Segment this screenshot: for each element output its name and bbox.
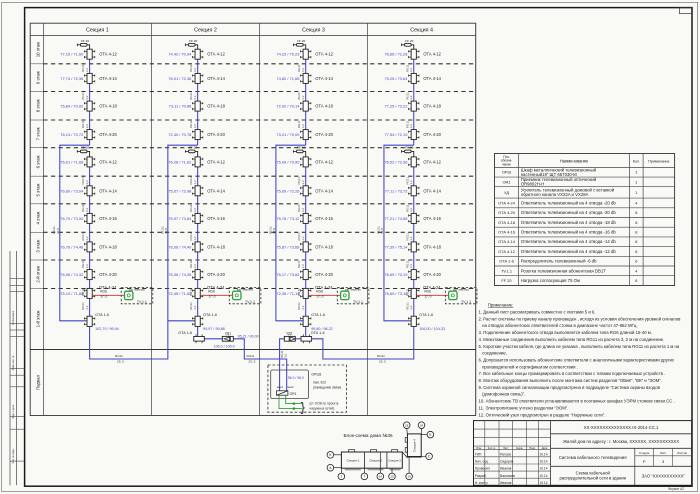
svg-text:Подп. и дата: Подп. и дата	[12, 404, 15, 419]
svg-text:106,00 / 104,33: 106,00 / 104,33	[419, 327, 445, 331]
svg-text:11. Электропитание учтено разд: 11. Электропитание учтено разделом “ЭОМ”…	[479, 405, 569, 410]
section 4 upper feeder wire RG11	[384, 145, 414, 321]
svg-text:Васильев: Васильев	[500, 474, 515, 478]
svg-text:1: 1	[340, 475, 342, 479]
svg-text:Ответвитель телевизионный на 4: Ответвитель телевизионный на 4 отвода -1…	[521, 249, 617, 254]
svg-text:17, 0: 17, 0	[100, 295, 107, 299]
svg-text:ОТА 4-16: ОТА 4-16	[423, 216, 441, 221]
svg-text:25, 5: 25, 5	[249, 360, 256, 364]
tap ОТА 4-12 section 1, 10 этаж	[87, 49, 92, 59]
svg-text:76,36 / 74,26: 76,36 / 74,26	[168, 272, 192, 277]
svg-text:8 этаж: 8 этаж	[35, 99, 40, 112]
svg-text:76,17 / 73,84: 76,17 / 73,84	[276, 272, 300, 277]
tap ОТА 4-18 section 3, 3 этаж	[303, 242, 308, 252]
splitter ОТА 1-6 section 1	[87, 316, 92, 326]
svg-text:31,5: 31,5	[164, 228, 168, 234]
tap ОТА 4-20 section 1, 2-й этаж	[87, 270, 92, 280]
svg-text:RG6: RG6	[208, 290, 215, 294]
svg-text:8. Монтаж оборудования выполни: 8. Монтаж оборудования выполнить после м…	[479, 378, 662, 383]
svg-text:ХХ-ХХХХХХХХХХХХХХ.IХ-2014-СС.1: ХХ-ХХХХХХХХХХХХХХ.IХ-2014-СС.1	[584, 425, 659, 430]
tap ОТА 4-14 section 2, 9 этаж	[195, 73, 200, 83]
svg-text:Секция 1: Секция 1	[347, 459, 360, 463]
svg-text:76,66 / 72,28: 76,66 / 72,28	[384, 52, 408, 57]
section 3 riser wire lower half (floors 1-6)	[305, 157, 307, 317]
svg-text:10.14: 10.14	[540, 460, 548, 464]
svg-text:TV.1.1: TV.1.1	[501, 268, 512, 273]
svg-text:ОТА 4-16: ОТА 4-16	[207, 216, 225, 221]
svg-text:ОТА 4-12: ОТА 4-12	[315, 52, 333, 57]
svg-text:3 этаж: 3 этаж	[35, 240, 40, 253]
svg-text:3,2: 3,2	[301, 236, 305, 241]
svg-text:на отводах абонентских ответви: на отводах абонентских ответвителей стоя…	[479, 323, 638, 328]
tap ОТА 4-20 section 1, 7 этаж	[87, 130, 92, 140]
svg-text:73,11 / 70,86: 73,11 / 70,86	[169, 104, 193, 109]
svg-text:Ответвитель телевизионный на 4: Ответвитель телевизионный на 4 отвода -1…	[521, 239, 617, 244]
svg-text:Инв. № подл.: Инв. № подл.	[12, 448, 15, 463]
left margin stamp boxes	[10, 278, 25, 280]
svg-text:Распределитель телевизионный -: Распределитель телевизионный -6 db	[521, 259, 597, 264]
apartment TV outlet box (dashed)	[445, 288, 477, 304]
svg-text:ОТА 4-16: ОТА 4-16	[99, 216, 117, 221]
svg-text:Примечание: Примечание	[648, 160, 669, 164]
svg-text:3,2: 3,2	[409, 305, 413, 310]
svg-text:Секция 2: Секция 2	[194, 28, 217, 34]
svg-text:ОТА 1-6: ОТА 1-6	[178, 331, 192, 335]
svg-text:19: 19	[407, 475, 411, 479]
svg-text:75,10 / 71,88: 75,10 / 71,88	[60, 291, 84, 296]
subscriber drop cable RG6 17,0 (red)	[92, 294, 124, 296]
equipment table	[495, 154, 675, 286]
svg-text:ОТА 1-6: ОТА 1-6	[203, 313, 217, 317]
splitter ОТА 1-6 section 4	[411, 316, 416, 326]
svg-text:76,76 / 74,46: 76,76 / 74,46	[60, 244, 84, 249]
section 4 riser wire upper half (floors 7-10)	[413, 49, 415, 145]
svg-text:3,2: 3,2	[85, 68, 89, 73]
svg-text:75,78 / 73,12: 75,78 / 73,12	[276, 216, 299, 221]
svg-text:77,30 / 75,14: 77,30 / 75,14	[384, 244, 408, 249]
svg-text:8: 8	[635, 239, 637, 244]
svg-text:ЗАО “ХХХХХХХХХХХ”: ЗАО “ХХХХХХХХХХХ”	[642, 474, 686, 479]
svg-text:76,01 / 72,36: 76,01 / 72,36	[168, 76, 192, 81]
svg-text:77,21 / 74,58: 77,21 / 74,58	[384, 216, 408, 221]
tap ОТА 4-16 section 3, 4 этаж	[303, 213, 308, 223]
svg-text:(помещение связи): (помещение связи)	[313, 385, 341, 389]
svg-text:3,2: 3,2	[85, 236, 89, 241]
TV socket TV.1.1 (green)	[125, 291, 133, 299]
svg-text:ОТА 4-18: ОТА 4-18	[315, 104, 333, 109]
tap ОТА 4-14 section 3, 9 этаж	[303, 73, 308, 83]
svg-text:Розетка телевизионная абонентс: Розетка телевизионная абонентская DB1T	[521, 268, 607, 273]
svg-text:76,13 / 70,72: 76,13 / 70,72	[60, 132, 83, 137]
svg-text:76,06 / 74,40: 76,06 / 74,40	[168, 244, 192, 249]
svg-text:3,2: 3,2	[301, 68, 305, 73]
svg-text:Блок-схема дома №36: Блок-схема дома №36	[343, 433, 393, 438]
subscriber drop cable RG6 17,0 (red)	[416, 294, 448, 296]
svg-text:ОТА 4-12: ОТА 4-12	[207, 52, 225, 57]
apartment TV outlet box (dashed)	[337, 288, 369, 304]
svg-text:УД2: УД2	[286, 331, 292, 335]
tap ОТА 4-14 section 4, 9 этаж	[411, 73, 416, 83]
svg-text:TV.1.1: TV.1.1	[353, 300, 363, 304]
svg-text:ОТА 4-12: ОТА 4-12	[423, 159, 441, 164]
svg-text:ОТА 4-16: ОТА 4-16	[498, 229, 515, 234]
wire: УД2 to basement splitter section 3	[295, 338, 300, 340]
svg-text:Кол.уч.: Кол.уч.	[488, 447, 496, 450]
svg-text:76,60 / 73,04: 76,60 / 73,04	[60, 188, 84, 193]
svg-text:RG11: RG11	[247, 354, 255, 358]
svg-text:Согласовано: Согласовано	[12, 310, 15, 325]
svg-text:31,5: 31,5	[56, 228, 60, 234]
section 1 riser wire upper half (floors 7-10)	[89, 49, 91, 145]
tap ОТА 4-20 section 3, 2-й этаж	[303, 270, 308, 280]
svg-text:1: 1	[635, 179, 637, 184]
svg-text:8: 8	[635, 249, 637, 254]
svg-text:ОТА 4-12: ОТА 4-12	[99, 159, 117, 164]
svg-text:Петров: Петров	[500, 452, 511, 456]
svg-text:3,2: 3,2	[85, 124, 89, 129]
wire: section 1 splitter to bus, bus to section 2 feeder	[90, 321, 168, 359]
svg-text:77,15 / 71,60: 77,15 / 71,60	[60, 52, 84, 57]
svg-text:3,2: 3,2	[85, 264, 89, 269]
svg-text:75,87 / 73,68: 75,87 / 73,68	[276, 244, 300, 249]
svg-text:75,97 / 73,84: 75,97 / 73,84	[168, 216, 192, 221]
svg-text:пом. 023: пом. 023	[313, 381, 326, 385]
svg-text:3,2: 3,2	[85, 95, 89, 100]
svg-text:3,2: 3,2	[409, 68, 413, 73]
svg-text:3,2: 3,2	[193, 180, 197, 185]
tap ОТА 4-20 section 4, 7 этаж	[411, 130, 416, 140]
svg-text:OR1: OR1	[503, 179, 511, 184]
plan node circles	[327, 452, 334, 459]
svg-text:3,2: 3,2	[193, 95, 197, 100]
splitter ОТА 1-6 basement section 3 (horizontal)	[301, 337, 312, 342]
svg-text:31,5: 31,5	[380, 228, 384, 234]
svg-text:TV.1.1: TV.1.1	[245, 300, 255, 304]
svg-text:производителей и сертификатом: производителей и сертификатом соответств…	[479, 364, 578, 369]
TV socket TV.1.1 (green)	[341, 291, 349, 299]
svg-text:Секция 3: Секция 3	[388, 459, 401, 463]
tap ОТА 4-18 section 1, 8 этаж	[87, 101, 92, 111]
svg-text:75,09 / 70,90: 75,09 / 70,90	[276, 159, 300, 164]
svg-text:3,2: 3,2	[85, 208, 89, 213]
svg-text:FF 20: FF 20	[189, 146, 197, 150]
svg-text:ОТА 4-12: ОТА 4-12	[498, 249, 515, 254]
svg-text:Иванов: Иванов	[500, 481, 512, 485]
section 1 upper feeder wire RG11	[60, 145, 90, 321]
svg-text:1: 1	[635, 170, 637, 175]
svg-text:75,69 / 72,26: 75,69 / 72,26	[276, 188, 300, 193]
svg-text:FF 20: FF 20	[297, 146, 305, 150]
svg-text:ОТА 4-18: ОТА 4-18	[423, 244, 441, 249]
svg-text:Подп.: Подп.	[529, 447, 536, 450]
svg-text:Секция 3: Секция 3	[302, 28, 325, 34]
svg-text:Подвал: Подвал	[35, 375, 40, 391]
svg-text:FF 20: FF 20	[81, 146, 89, 150]
svg-text:ОТА 4-24: ОТА 4-24	[498, 200, 516, 205]
svg-text:3,2: 3,2	[409, 180, 413, 185]
svg-text:76,52 / 72,36: 76,52 / 72,36	[384, 159, 408, 164]
svg-text:ОТА 1-6: ОТА 1-6	[499, 259, 514, 264]
svg-text:8: 8	[635, 220, 637, 225]
svg-text:76,01 / 71,68: 76,01 / 71,68	[60, 159, 84, 164]
svg-text:ОТА 4-14: ОТА 4-14	[207, 76, 225, 81]
tap ОТА 4-12 section 4, 6 этаж	[411, 157, 416, 167]
svg-text:ОТА 1-6: ОТА 1-6	[311, 331, 325, 335]
house amplifier УД1	[222, 336, 233, 341]
svg-text:2-й этаж: 2-й этаж	[35, 266, 40, 283]
svg-text:Иванов: Иванов	[500, 467, 512, 471]
tap ОТА 4-18 section 2, 8 этаж	[195, 101, 200, 111]
svg-text:Дата: Дата	[542, 447, 548, 450]
tap ОТА 4-12 section 4, 10 этаж	[411, 49, 416, 59]
svg-text:79,25 / 73,64: 79,25 / 73,64	[384, 76, 408, 81]
svg-text:ГИП: ГИП	[475, 452, 482, 456]
wire: section 2 splitter down to basement splitter	[197, 326, 199, 336]
svg-text:RG6: RG6	[100, 290, 107, 294]
tap ОТА 4-14 section 1, 9 этаж	[87, 73, 92, 83]
svg-text:3,2: 3,2	[409, 208, 413, 213]
title block	[474, 421, 692, 486]
svg-text:OR1: OR1	[290, 392, 297, 396]
svg-text:Ответвитель телевизионный на 4: Ответвитель телевизионный на 4 отвода -1…	[521, 229, 617, 234]
plan: section 4 outline	[407, 434, 421, 457]
svg-text:10.14: 10.14	[540, 467, 548, 471]
svg-text:7. Все кабельные концы промарк: 7. Все кабельные концы промаркировать в …	[479, 371, 666, 376]
svg-text:5 этаж: 5 этаж	[35, 183, 40, 196]
svg-text:ОРШ1: ОРШ1	[311, 373, 321, 377]
svg-text:распределительной сети в здани: распределительной сети в здании	[559, 476, 626, 481]
svg-text:ОТА 1-6: ОТА 1-6	[311, 313, 325, 317]
svg-text:76,69 / 73,19: 76,69 / 73,19	[384, 272, 407, 277]
svg-text:18: 18	[405, 424, 409, 428]
svg-text:Секция 4: Секция 4	[413, 439, 417, 452]
svg-text:12. Оптический узел предусмотр: 12. Оптический узел предусмотрен в разде…	[479, 412, 606, 417]
tap ОТА 4-12 section 3, 6 этаж	[303, 157, 308, 167]
svg-text:чение: чение	[502, 162, 511, 166]
svg-text:77,25 / 72,22: 77,25 / 72,22	[384, 104, 407, 109]
svg-text:ОТА 4-18: ОТА 4-18	[423, 104, 441, 109]
svg-text:96.0 / 96.0: 96.0 / 96.0	[288, 376, 304, 380]
svg-text:3,2: 3,2	[409, 264, 413, 269]
svg-text:Наименование: Наименование	[560, 159, 589, 164]
svg-text:Ответвитель телевизионный на 4: Ответвитель телевизионный на 4 отвода -2…	[521, 210, 617, 215]
svg-text:Разраб.: Разраб.	[475, 474, 487, 478]
svg-text:76,69 / 73,16: 76,69 / 73,16	[384, 291, 408, 296]
svg-text:Листов: Листов	[677, 451, 687, 455]
svg-text:10.14: 10.14	[540, 481, 548, 485]
tap ОТА 4-14 section 1, 5 этаж	[87, 186, 92, 196]
svg-text:Ответвитель телевизионный на 4: Ответвитель телевизионный на 4 отвода -1…	[521, 220, 617, 225]
svg-text:8: 8	[635, 210, 637, 215]
svg-text:17, 0: 17, 0	[424, 295, 431, 299]
tap ОТА 4-16 section 4, 4 этаж	[411, 213, 416, 223]
svg-text:ОТА 4-20: ОТА 4-20	[99, 272, 117, 277]
svg-text:ОТА 4-20: ОТА 4-20	[99, 132, 117, 137]
svg-text:3,2: 3,2	[301, 180, 305, 185]
apartment TV outlet box (dashed)	[229, 288, 261, 304]
svg-text:Нагрузка согласующая 75 Ом: Нагрузка согласующая 75 Ом	[521, 278, 580, 283]
svg-text:5. Короткие участки кабеля, гд: 5. Короткие участки кабеля, где длина не…	[479, 344, 680, 349]
house amplifier УД2	[284, 336, 295, 341]
wire: section 3 splitter down to basement splitter	[305, 326, 307, 336]
optical receiver OR1	[276, 391, 288, 395]
svg-text:4 этаж: 4 этаж	[35, 211, 40, 224]
tap ОТА 4-24 section 4, 1-й этаж	[411, 288, 416, 298]
svg-text:ОТА 1-6: ОТА 1-6	[419, 313, 433, 317]
svg-text:ОТА 4-14: ОТА 4-14	[99, 188, 117, 193]
svg-text:3,2: 3,2	[193, 305, 197, 310]
svg-text:14: 14	[379, 475, 383, 479]
svg-text:Секция 4: Секция 4	[410, 28, 433, 34]
svg-text:77,11 / 73,72: 77,11 / 73,72	[385, 188, 408, 193]
svg-text:RG11: RG11	[115, 354, 123, 358]
svg-text:(от ООВ по проекту: (от ООВ по проекту	[310, 401, 339, 405]
section 3 upper feeder wire RG11	[276, 145, 306, 321]
schematic grid box	[30, 23, 476, 415]
svg-text:ОТА 4-20: ОТА 4-20	[423, 132, 441, 137]
svg-text:Изм.: Изм.	[476, 447, 482, 450]
tap ОТА 4-12 section 2, 10 этаж	[195, 49, 200, 59]
svg-text:соединение.: соединение.	[479, 351, 508, 356]
svg-text:ОТА 4-20: ОТА 4-20	[315, 132, 333, 137]
svg-text:TV.1.1: TV.1.1	[137, 300, 147, 304]
tap ОТА 4-12 section 3, 10 этаж	[303, 49, 308, 59]
svg-text:24: 24	[420, 424, 424, 428]
tap ОТА 4-20 section 2, 7 этаж	[195, 130, 200, 140]
svg-text:ОТА 4-12: ОТА 4-12	[207, 159, 225, 164]
svg-text:ОТА 4-14: ОТА 4-14	[315, 76, 333, 81]
svg-text:1: 1	[635, 190, 637, 195]
svg-text:95,21 / 90.00: 95,21 / 90.00	[238, 335, 259, 339]
wire: splitter to amplifier УД1	[204, 338, 222, 340]
splitter ОТА 1-6 basement section 2 (horizontal)	[194, 337, 205, 342]
svg-text:25, 5: 25, 5	[379, 360, 386, 364]
svg-text:Жилой дом по адресу : г. Москв: Жилой дом по адресу : г. Москва, ХХХХХХ,…	[563, 439, 679, 444]
amplifier УД2 input wire from ОРШ	[280, 339, 285, 391]
svg-text:ОТА 4-20: ОТА 4-20	[498, 210, 516, 215]
tap ОТА 4-14 section 3, 5 этаж	[303, 186, 308, 196]
svg-text:FF 20: FF 20	[81, 39, 89, 43]
svg-text:3,2: 3,2	[301, 124, 305, 129]
svg-text:ОРШ: ОРШ	[502, 170, 512, 175]
svg-text:ОТА 4-14: ОТА 4-14	[498, 239, 516, 244]
svg-text:3,2: 3,2	[409, 124, 413, 129]
tap ОТА 4-20 section 4, 2-й этаж	[411, 270, 416, 280]
svg-text:Секция 1: Секция 1	[86, 28, 109, 34]
svg-text:72,45 / 71,62: 72,45 / 71,62	[168, 291, 191, 296]
subscriber drop cable RG6 17,0 (red)	[308, 294, 340, 296]
svg-text:FF 20: FF 20	[297, 39, 305, 43]
section header row	[30, 34, 476, 36]
svg-text:наружных сетей): наружных сетей)	[310, 407, 335, 411]
svg-text:УД: УД	[504, 190, 509, 195]
svg-text:8: 8	[635, 229, 637, 234]
svg-text:3,2: 3,2	[193, 68, 197, 73]
svg-text:ОТА 4-18: ОТА 4-18	[207, 104, 225, 109]
svg-text:102,70 / 99,94: 102,70 / 99,94	[95, 327, 119, 331]
svg-text:Р: Р	[643, 459, 646, 464]
svg-text:ОТА 4-12: ОТА 4-12	[99, 52, 117, 57]
plan connection lines	[334, 454, 342, 456]
svg-text:Проверил: Проверил	[475, 467, 490, 471]
svg-text:3,2: 3,2	[193, 236, 197, 241]
svg-text:6. Допускается использовать аб: 6. Допускается использовать абонентские …	[479, 357, 675, 362]
copy-number box top right	[679, 8, 691, 14]
svg-text:10 этаж: 10 этаж	[35, 42, 40, 57]
svg-text:ОТА 4-18: ОТА 4-18	[99, 104, 117, 109]
svg-text:3. Подключение абонентского от: 3. Подключение абонентского отвода выпол…	[479, 330, 652, 335]
svg-text:75,84 / 70,92: 75,84 / 70,92	[60, 104, 83, 109]
svg-text:10. Абонентские ТВ ответвители: 10. Абонентские ТВ ответвители устанавли…	[479, 399, 675, 404]
svg-text:вых1: вых1	[277, 385, 284, 389]
svg-text:72,40 / 70,78: 72,40 / 70,78	[168, 132, 192, 137]
svg-text:№док.: №док.	[516, 447, 524, 450]
tap ОТА 4-24 section 2, 1-й этаж	[195, 288, 200, 298]
svg-text:Лист: Лист	[660, 451, 667, 455]
tap ОТА 4-14 section 4, 5 этаж	[411, 186, 416, 196]
tap ОТА 4-14 section 2, 5 этаж	[195, 186, 200, 196]
svg-text:ОТА 4-14: ОТА 4-14	[423, 188, 441, 193]
tap ОТА 4-24 section 1, 1-й этаж	[87, 288, 92, 298]
TV socket TV.1.1 (green)	[449, 291, 457, 299]
cabinet inner enclosure	[271, 370, 309, 399]
tap ОТА 4-16 section 1, 4 этаж	[87, 213, 92, 223]
svg-text:25, 5: 25, 5	[117, 360, 124, 364]
wire: basement splitter to section 4 via bus	[312, 326, 414, 359]
svg-text:3,2: 3,2	[409, 236, 413, 241]
svg-text:9. Система охранной сигнализац: 9. Система охранной сигнализации предусм…	[479, 385, 661, 390]
svg-text:3,0: 3,0	[284, 353, 288, 357]
svg-text:3,2: 3,2	[85, 305, 89, 310]
svg-text:RG11: RG11	[377, 354, 385, 358]
svg-text:17, 0: 17, 0	[208, 295, 215, 299]
tap ОТА 4-18 section 4, 3 этаж	[411, 242, 416, 252]
svg-text:Лист: Лист	[503, 447, 509, 450]
section 3 riser wire upper half (floors 7-10)	[305, 49, 307, 145]
apartment TV outlet box (dashed)	[121, 288, 153, 304]
svg-text:обратного канала VX22A и VX28A: обратного канала VX22A и VX28A	[521, 192, 589, 197]
section 2 riser wire upper half (floors 7-10)	[197, 49, 199, 145]
svg-text:17, 0: 17, 0	[316, 295, 323, 299]
svg-text:ОТА 4-20: ОТА 4-20	[423, 272, 441, 277]
svg-text:Примечание:: Примечание:	[488, 302, 513, 307]
wire: УД1 input from ОРШ via basement	[233, 339, 286, 391]
svg-text:3,2: 3,2	[193, 264, 197, 269]
splitter ОТА 1-6 section 2	[195, 316, 200, 326]
svg-text:ОТА 4-14: ОТА 4-14	[423, 76, 441, 81]
svg-text:ОТА 4-16: ОТА 4-16	[315, 216, 333, 221]
svg-text:Н. контр.: Н. контр.	[475, 481, 489, 485]
section 2 riser wire lower half (floors 1-6)	[197, 157, 199, 317]
svg-text:72,92 / 70,14: 72,92 / 70,14	[276, 104, 300, 109]
tap ОТА 4-18 section 3, 8 этаж	[303, 101, 308, 111]
svg-text:ОТА 4-14: ОТА 4-14	[207, 188, 225, 193]
svg-text:10.14: 10.14	[540, 452, 548, 456]
svg-text:Формат А2: Формат А2	[668, 487, 684, 491]
svg-text:74,23 / 70,23: 74,23 / 70,23	[276, 52, 300, 57]
section 4 riser wire lower half (floors 1-6)	[413, 157, 415, 317]
svg-text:ОТА 4-18: ОТА 4-18	[99, 244, 117, 249]
svg-text:(домофонная связь)”.: (домофонная связь)”.	[479, 392, 526, 397]
svg-text:15: 15	[390, 475, 394, 479]
svg-text:RG6: RG6	[316, 290, 323, 294]
svg-text:75,67 / 72,98: 75,67 / 72,98	[168, 188, 192, 193]
svg-text:77,54 / 72,10: 77,54 / 72,10	[384, 132, 408, 137]
svg-text:3,2: 3,2	[409, 95, 413, 100]
svg-text:ОТА 4-12: ОТА 4-12	[423, 52, 441, 57]
svg-text:Кол.: Кол.	[633, 160, 640, 164]
subscriber drop cable RG6 17,0 (red)	[200, 294, 232, 296]
